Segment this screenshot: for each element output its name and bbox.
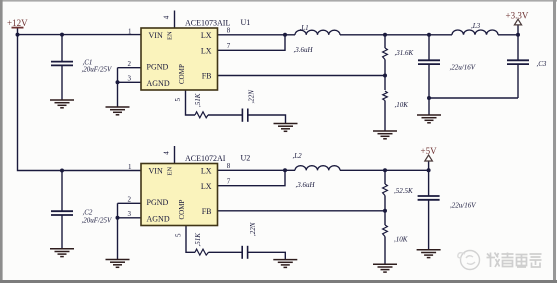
ground below 22u (U2) <box>417 250 441 258</box>
node 22u bottom <box>427 96 431 100</box>
svg-text:,51K: ,51K <box>194 93 202 107</box>
svg-text:U2: U2 <box>241 154 251 163</box>
svg-text:,22u/16V: ,22u/16V <box>450 201 476 209</box>
svg-text:,20uF/25V: ,20uF/25V <box>82 66 112 74</box>
svg-text:COMP: COMP <box>178 200 186 220</box>
wire U1 pin2 stub <box>118 67 142 69</box>
node +5V <box>427 168 431 172</box>
svg-text:,20uF/25V: ,20uF/25V <box>82 217 112 225</box>
capacitor 22N (U1 comp) <box>242 109 247 122</box>
svg-text:LX: LX <box>201 31 212 40</box>
capacitor C2 <box>51 211 73 215</box>
svg-text:COMP: COMP <box>178 64 186 84</box>
power symbol +3.3V arrow <box>506 11 529 25</box>
inductor L1 <box>295 30 340 35</box>
wire L1 out to L3 in <box>340 34 452 36</box>
svg-text:1: 1 <box>128 163 132 171</box>
wire U2 pin5 stub <box>186 226 195 253</box>
svg-text:LX: LX <box>201 167 212 176</box>
wire +12V stem <box>17 28 19 35</box>
power symbol +5V arrow <box>421 146 438 161</box>
wire C-22u top stem <box>428 35 430 61</box>
wire L2 out to 5V node <box>340 169 429 171</box>
ground below 22u (U1) <box>417 115 441 123</box>
wire C2 top stem <box>61 171 63 212</box>
wire output bottom bus <box>429 97 518 99</box>
svg-text:4: 4 <box>163 15 171 19</box>
svg-text:AGND: AGND <box>147 215 170 224</box>
svg-text:,52.5K: ,52.5K <box>394 187 413 195</box>
node C1 tap <box>60 33 64 37</box>
svg-text:,10K: ,10K <box>395 101 409 109</box>
frame top border <box>0 0 557 2</box>
svg-text:VIN: VIN <box>149 31 163 40</box>
wire divider R2 to ground <box>384 101 386 132</box>
wire U1 comp cap to ground <box>248 115 286 124</box>
wire C3 bottom stem <box>517 64 519 98</box>
node 22u tap <box>427 33 431 37</box>
frame left border <box>0 0 3 283</box>
svg-text:5: 5 <box>175 233 183 237</box>
node U1 agnd join <box>116 80 120 84</box>
op IC U2 ACE1072AI <box>141 164 218 226</box>
svg-text:,C3: ,C3 <box>537 60 547 68</box>
node +3.3V <box>516 33 520 37</box>
wire C-22u-2 bottom stem <box>428 200 430 250</box>
wire U2 pin7 <box>218 170 286 185</box>
wire U1 pin4 stub <box>174 11 176 29</box>
svg-text:,L2: ,L2 <box>293 152 303 160</box>
svg-text:5: 5 <box>174 98 182 102</box>
ground below C2 <box>50 249 74 257</box>
wire U1 pin5 stub <box>186 90 196 115</box>
wire U1 comp RC middle <box>208 114 242 116</box>
svg-text:,C2: ,C2 <box>83 209 93 217</box>
svg-text:,L1: ,L1 <box>300 24 309 32</box>
wire divider R3 top <box>384 170 386 184</box>
node +12V <box>16 33 20 37</box>
wire U1 FB <box>218 75 386 77</box>
wire divider R4 top <box>384 211 386 225</box>
wire divider R2 top <box>384 76 386 91</box>
svg-text:3: 3 <box>128 75 132 83</box>
ground U1 comp <box>274 124 298 132</box>
wire U1 pin3 stub <box>118 81 142 83</box>
frame bottom border <box>0 280 557 283</box>
ground below U1 AGND <box>106 107 130 115</box>
svg-text:+12V: +12V <box>7 18 28 28</box>
wire divider R3 bottom <box>384 196 386 211</box>
wire U1 pin7 <box>218 35 286 51</box>
node U2 FB <box>383 209 387 213</box>
resistor 52.5K <box>383 184 388 196</box>
node U2 divider top <box>383 168 387 172</box>
svg-text:+3.3V: +3.3V <box>506 11 529 21</box>
svg-text:+5V: +5V <box>421 146 438 156</box>
svg-text:8: 8 <box>227 27 231 35</box>
wire +12V rail to U1 pin1 <box>18 34 142 36</box>
watermark text 松哥电源 <box>487 253 542 268</box>
svg-text:,3.6uH: ,3.6uH <box>294 46 314 54</box>
inductor L2 <box>295 166 340 171</box>
svg-text:ACE1072AI: ACE1072AI <box>185 154 226 163</box>
svg-text:ACE1073AIL: ACE1073AIL <box>185 19 230 28</box>
wire divider R1 bottom <box>384 60 386 76</box>
wire left rail down to U2 <box>18 35 142 171</box>
ground below 10K (U1) <box>373 131 397 139</box>
svg-text:FB: FB <box>202 207 212 216</box>
node U1 divider top <box>383 33 387 37</box>
svg-text:2: 2 <box>128 60 132 68</box>
capacitor C1 <box>51 62 73 66</box>
wire U2 pin4 stub <box>174 146 176 164</box>
svg-text:,3.6uH: ,3.6uH <box>296 181 316 189</box>
wire U2 pin3 stub <box>118 217 142 219</box>
watermark logo circle <box>458 251 480 270</box>
wire C-22u bottom stem <box>428 64 430 115</box>
wire C1 bottom stem <box>61 65 63 100</box>
ground U2 comp <box>273 260 297 268</box>
resistor 10K (U2) <box>383 225 388 237</box>
frame right border <box>553 0 556 283</box>
node U2 LX join <box>283 168 287 172</box>
capacitor C3 <box>507 60 529 64</box>
svg-text:,22N: ,22N <box>249 222 257 236</box>
power symbol +12V bar <box>7 18 28 28</box>
svg-text:EN: EN <box>167 31 174 40</box>
wire U2 comp cap to ground <box>248 252 286 259</box>
resistor 31.6K <box>383 48 388 60</box>
ground below U2 AGND <box>106 260 130 268</box>
resistor 51K (U1 comp) <box>195 112 208 118</box>
wire U1 pin8 to L1 <box>218 34 296 36</box>
svg-text:,22u/16V: ,22u/16V <box>450 64 476 72</box>
wire divider R1 top <box>384 35 386 48</box>
node C2 tap <box>60 169 64 173</box>
node U1 LX join <box>283 33 287 37</box>
svg-text:,31.6K: ,31.6K <box>395 49 414 57</box>
wire C-22u-2 top stem <box>428 170 430 196</box>
ground below 10K (U2) <box>373 264 397 272</box>
wire U2 pin8 to L2 <box>218 169 296 171</box>
svg-text:,51K: ,51K <box>194 233 202 247</box>
svg-text:7: 7 <box>227 178 231 186</box>
wire 5V arrow stem <box>428 161 430 170</box>
wire U2 FB <box>218 210 386 212</box>
capacitor 22u/16V (U2 output) <box>418 196 440 200</box>
capacitor 22u/16V (U1 output) <box>418 60 440 64</box>
svg-text:LX: LX <box>201 47 212 56</box>
svg-text:LX: LX <box>201 182 212 191</box>
wire C1 top stem <box>61 35 63 62</box>
ground below C1 <box>50 100 74 108</box>
wire L3 out to 3.3V node <box>498 34 518 36</box>
wire U2 pgnd-agnd vertical <box>117 203 119 259</box>
svg-text:8: 8 <box>227 162 231 170</box>
wire U2 pin2 stub <box>118 202 142 204</box>
svg-text:,10K: ,10K <box>394 236 408 244</box>
svg-text:4: 4 <box>163 151 171 155</box>
wire U1 pgnd-agnd vertical <box>117 68 119 107</box>
svg-text:EN: EN <box>167 167 174 176</box>
svg-text:AGND: AGND <box>147 79 170 88</box>
resistor 10K (U1) <box>383 91 388 101</box>
svg-text:,L3: ,L3 <box>471 22 481 30</box>
wire divider R4 to ground <box>384 237 386 265</box>
capacitor 22N (U2 comp) <box>242 246 247 259</box>
node U2 agnd join <box>116 216 120 220</box>
svg-text:7: 7 <box>227 42 231 50</box>
svg-text:PGND: PGND <box>147 63 169 72</box>
svg-text:2: 2 <box>128 196 132 204</box>
inductor L3 <box>452 30 498 35</box>
wire U2 comp RC middle <box>209 251 243 253</box>
svg-text:FB: FB <box>202 72 212 81</box>
svg-text:,22N: ,22N <box>248 90 256 104</box>
wire 3.3V arrow stem <box>517 25 519 35</box>
node U1 FB <box>383 74 387 78</box>
wire C3 top stem <box>517 35 519 61</box>
svg-text:1: 1 <box>128 28 132 36</box>
op IC U1 ACE1073AIL <box>141 28 218 90</box>
svg-text:3: 3 <box>128 210 132 218</box>
svg-text:U1: U1 <box>241 18 251 27</box>
resistor 51K (U2 comp) <box>195 249 209 255</box>
svg-text:VIN: VIN <box>149 167 163 176</box>
svg-text:PGND: PGND <box>147 198 169 207</box>
wire C2 bottom stem <box>61 215 63 249</box>
